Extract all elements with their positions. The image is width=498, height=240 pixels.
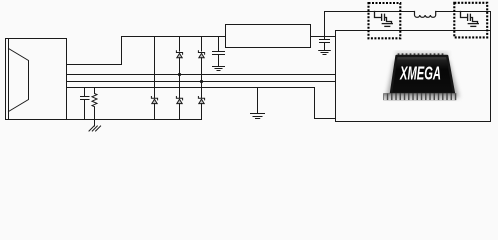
IC U1 box bbox=[226, 25, 311, 48]
diode D2 (zener, upper row col 2) bbox=[176, 51, 182, 98]
dashed filter box 2 bbox=[454, 3, 487, 38]
connector J1 bbox=[6, 39, 67, 120]
diode D5 (zener, lower row col 3) bbox=[198, 97, 204, 120]
junction node on bus 2 bbox=[200, 80, 203, 83]
wire bus line 2 bbox=[67, 81, 336, 83]
wire bus line 3 to bottom corner bbox=[67, 88, 336, 119]
junction node on bus 1 bbox=[178, 73, 181, 76]
ground chassis below R1 bbox=[89, 120, 101, 132]
wire column 1 bbox=[154, 37, 156, 99]
wire column 2 upper bbox=[179, 37, 181, 52]
wire top rail bbox=[122, 36, 226, 38]
capacitor C5 network inside ferrite box 2 bbox=[461, 12, 479, 27]
wire from U1 to board bbox=[311, 36, 336, 38]
diode D1 (zener, lower row col 1) bbox=[151, 97, 157, 120]
capacitor C3 with ground bbox=[319, 37, 331, 55]
wire column 3 upper bbox=[201, 37, 203, 52]
inductor L1 bbox=[415, 12, 436, 18]
wire riser to VCC filter bbox=[325, 12, 415, 37]
wire bus line 1 bbox=[67, 74, 336, 76]
ground earth on bus 3 bbox=[251, 88, 265, 119]
capacitor C1 bbox=[81, 88, 90, 120]
microcontroller XMEGA chip graphic bbox=[383, 52, 459, 100]
wire top from connector up to rail bbox=[67, 37, 122, 65]
capacitor C2 with ground bbox=[213, 37, 225, 71]
wire from L1 into board corner bbox=[436, 12, 491, 31]
dashed filter box 1 bbox=[369, 3, 401, 38]
svg-text:XMEGA: XMEGA bbox=[399, 64, 441, 84]
diode D3 (zener, lower row col 2) bbox=[176, 97, 182, 120]
diode D4 (zener, upper row col 3) bbox=[198, 51, 204, 98]
wire bottom rail bbox=[67, 119, 202, 121]
capacitor C4 network inside ferrite box 1 bbox=[375, 12, 393, 27]
resistor R1 bbox=[92, 88, 97, 120]
board outline box bbox=[336, 31, 491, 122]
